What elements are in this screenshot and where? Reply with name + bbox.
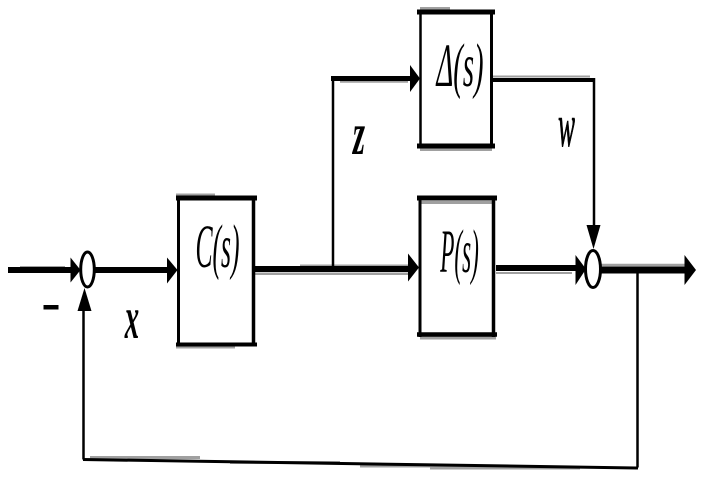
svg-text:w: w bbox=[558, 93, 575, 159]
svg-text:Δ(s): Δ(s) bbox=[435, 34, 483, 101]
svg-text:P(s): P(s) bbox=[440, 218, 479, 285]
svg-text:x: x bbox=[124, 286, 139, 352]
svg-text:z: z bbox=[352, 101, 366, 167]
svg-text:C(s): C(s) bbox=[195, 214, 239, 282]
